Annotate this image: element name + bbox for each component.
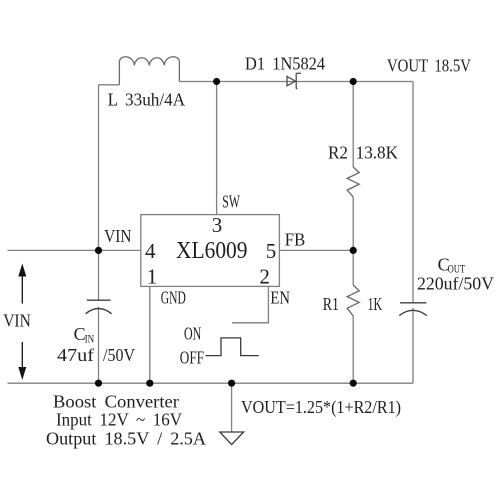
svg-text:5: 5 [266, 239, 277, 263]
svg-text:1K: 1K [368, 294, 383, 314]
svg-text:VOUT 18.5V: VOUT 18.5V [387, 56, 471, 76]
svg-text:L 33uh/4A: L 33uh/4A [108, 90, 186, 110]
svg-text:R1: R1 [323, 294, 339, 314]
svg-text:1: 1 [147, 265, 158, 289]
svg-text:EN: EN [270, 287, 290, 307]
svg-text:FB: FB [285, 230, 305, 250]
svg-text:IN: IN [85, 332, 95, 346]
svg-text:VIN: VIN [104, 226, 131, 246]
svg-text:4: 4 [145, 239, 156, 263]
svg-text:220uf/50V: 220uf/50V [417, 274, 494, 294]
svg-text:VOUT=1.25*(1+R2/R1): VOUT=1.25*(1+R2/R1) [241, 397, 401, 418]
svg-text:2: 2 [259, 265, 270, 289]
svg-text:R2 13.8K: R2 13.8K [328, 143, 398, 163]
svg-text:3: 3 [212, 213, 223, 237]
svg-text:D1 1N5824: D1 1N5824 [245, 54, 325, 74]
svg-text:XL6009: XL6009 [176, 238, 248, 264]
svg-text:OUT: OUT [448, 262, 466, 276]
svg-text:/50V: /50V [103, 345, 135, 365]
svg-text:Boost Converter: Boost Converter [53, 392, 179, 412]
svg-text:Output 18.5V / 2.5A: Output 18.5V / 2.5A [46, 429, 206, 449]
svg-text:GND: GND [161, 287, 186, 307]
svg-text:47uf: 47uf [57, 345, 94, 365]
svg-text:OFF: OFF [180, 348, 204, 368]
svg-text:ON: ON [184, 324, 201, 344]
svg-text:SW: SW [222, 192, 240, 212]
svg-text:Input 12V ~ 16V: Input 12V ~ 16V [56, 410, 182, 430]
svg-text:VIN: VIN [3, 311, 31, 331]
